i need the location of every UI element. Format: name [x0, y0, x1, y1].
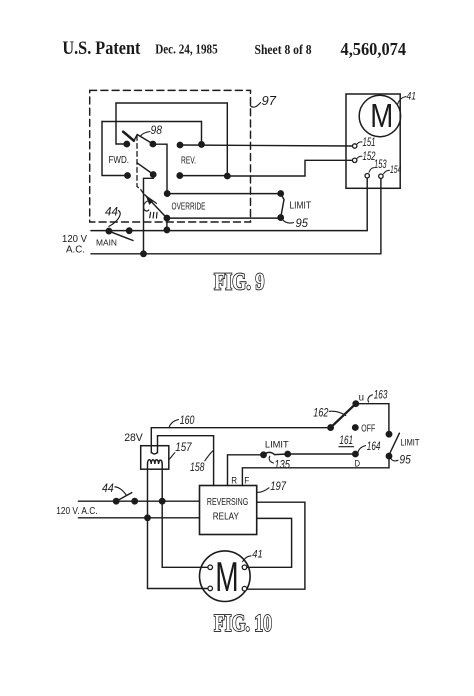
label 95 leader (fig9)	[283, 220, 294, 224]
svg-text:95: 95	[399, 453, 411, 467]
contact FWD top-left	[124, 141, 129, 146]
svg-text:158: 158	[190, 460, 205, 474]
svg-text:154: 154	[390, 164, 401, 176]
wire: AC bottom bus	[78, 517, 199, 519]
wire: second bus y=121.5	[102, 121, 202, 123]
svg-text:4,560,074: 4,560,074	[341, 39, 407, 59]
wire: AC top bus	[78, 500, 199, 502]
transformer secondary coil	[148, 460, 163, 464]
svg-text:F: F	[244, 476, 249, 486]
switch 44 blade (fig10)	[116, 493, 132, 502]
terminal 151	[353, 144, 357, 148]
svg-text:Dec. 24, 1985: Dec. 24, 1985	[155, 43, 218, 58]
label 160 leader	[169, 420, 178, 428]
svg-text:135: 135	[274, 458, 290, 472]
svg-text:FWD.: FWD.	[109, 155, 130, 166]
svg-text:MAIN: MAIN	[96, 238, 117, 248]
svg-text:120 V: 120 V	[62, 234, 87, 245]
label 153 leader	[369, 168, 374, 173]
terminal 154	[379, 174, 383, 178]
contact 44 right	[127, 228, 132, 233]
transformer primary leads	[151, 428, 157, 454]
contact LIMIT top	[278, 191, 283, 196]
contact REV top-right	[199, 142, 204, 147]
wire: secondary lead B to motor upper-left	[162, 464, 208, 567]
svg-text:160: 160	[180, 413, 195, 427]
svg-text:OVERRIDE: OVERRIDE	[172, 202, 206, 213]
svg-text:151: 151	[363, 137, 376, 149]
wire: OVERRIDE lower contact to LIMIT bottom	[167, 217, 281, 219]
label 95 leader (fig10)	[391, 458, 398, 461]
wire: OVERRIDE lower contact down to main bus	[166, 218, 168, 230]
OVERRIDE linkage hatch III	[150, 212, 157, 218]
wire: FWD bottom-right jog down to bottom bus	[144, 175, 154, 254]
svg-text:162: 162	[313, 406, 328, 420]
switch 98 lower blade	[137, 163, 153, 175]
junction main bus / override	[164, 227, 169, 232]
wire: FWD top-right to OVERRIDE top contact	[153, 144, 167, 193]
svg-text:FIG. 9: FIG. 9	[214, 269, 265, 296]
motor terminal lower-left	[208, 586, 213, 591]
svg-text:REVERSING: REVERSING	[207, 497, 248, 508]
svg-text:95: 95	[296, 216, 309, 230]
wire: 135 to selector D contact	[288, 453, 356, 455]
contact 95 top	[386, 432, 391, 437]
label 157 leader	[169, 453, 175, 460]
LIMIT 135 blade	[264, 452, 288, 454]
svg-text:FIG. 10: FIG. 10	[214, 610, 272, 637]
svg-text:M: M	[215, 553, 238, 600]
svg-text:Sheet 8 of 8: Sheet 8 of 8	[255, 43, 312, 58]
motor terminal lower-right	[242, 586, 247, 591]
wire: secondary lead A to motor lower-left	[148, 464, 209, 589]
motor box (fig9)	[346, 94, 400, 188]
svg-text:98: 98	[151, 125, 163, 137]
selector pivot contact	[328, 425, 333, 430]
svg-text:163: 163	[374, 388, 388, 402]
svg-text:44: 44	[105, 205, 118, 219]
wire: top bus y=103	[116, 102, 227, 104]
contact 135 left	[261, 452, 266, 457]
terminal 152	[353, 158, 357, 162]
label 151 leader	[357, 142, 362, 144]
wire: relay R terminal to LIMIT 135	[228, 455, 264, 486]
wire: 28V second bus to relay drop	[158, 436, 214, 486]
junction bottom bus	[141, 251, 146, 256]
wire: REV top row to motor terminal 151	[180, 145, 353, 146]
svg-text:D: D	[355, 459, 361, 469]
dashed enclosure 97	[90, 90, 251, 222]
svg-text:LIMIT: LIMIT	[265, 440, 289, 451]
wire: relay right #1 to motor lower-right	[247, 502, 305, 589]
switch 98 blade	[134, 135, 153, 144]
svg-text:197: 197	[270, 479, 287, 493]
limit switch 95 blade (fig10)	[389, 433, 399, 455]
contact REV bottom-right	[225, 173, 230, 178]
contact OVERRIDE bottom	[164, 215, 169, 220]
wire: bottom return bus	[91, 253, 381, 255]
mechanical linkage (dashed)	[137, 136, 145, 196]
contact u	[353, 401, 358, 406]
label 98 leader	[141, 132, 151, 137]
svg-text:LIMIT: LIMIT	[290, 199, 312, 211]
wire: 120V main bus	[91, 230, 367, 232]
svg-text:44: 44	[102, 481, 114, 495]
wire: relay right #2 to motor upper-right	[247, 518, 292, 567]
terminal 153	[365, 174, 369, 178]
svg-text:RELAY: RELAY	[213, 511, 239, 522]
contact 44 right (fig10)	[132, 499, 137, 504]
svg-text:161: 161	[339, 433, 353, 447]
junction secondary A / AC bottom	[145, 515, 150, 520]
relay box 197	[200, 486, 257, 535]
switch 98 blade tip	[123, 132, 134, 141]
label 44 leader (fig10)	[115, 487, 127, 496]
label 164 leader	[358, 446, 366, 453]
contact REV bottom-left	[177, 173, 182, 178]
junction secondary B / AC top	[160, 499, 165, 504]
OVERRIDE spring curl	[144, 201, 157, 211]
svg-text:153: 153	[374, 159, 387, 171]
wire: REV bottom row to motor terminal 152	[180, 160, 353, 176]
OVERRIDE blade arrowhead	[146, 196, 153, 204]
svg-text:164: 164	[367, 439, 381, 453]
label 41 leader (fig9)	[398, 97, 407, 105]
svg-text:28V: 28V	[124, 432, 143, 444]
contact LIMIT bottom	[278, 215, 283, 220]
label 197 leader	[258, 488, 270, 493]
wire: main bus up to motor terminal 153	[366, 178, 368, 231]
svg-text:A.C.: A.C.	[66, 245, 85, 256]
motor circle M (fig9)	[359, 95, 400, 136]
transformer box 157	[141, 446, 169, 470]
wire: 28V top bus to selector pivot	[151, 427, 330, 429]
wire: right drop to REV top-right contact	[201, 122, 203, 145]
label 154 leader	[384, 170, 390, 174]
motor terminal upper-left	[208, 565, 213, 570]
label 44 leader	[109, 211, 120, 227]
svg-text:M: M	[370, 97, 393, 134]
contact OFF	[353, 425, 358, 430]
wire: left drop to FWD top-left contact	[116, 103, 125, 144]
contact 44 left (fig10)	[114, 499, 119, 504]
svg-text:REV.: REV.	[181, 156, 196, 167]
wire: bottom bus up to motor terminal 154	[380, 178, 382, 254]
wire: left drop to FWD bottom-left contact	[102, 122, 126, 176]
label 158 leader	[205, 451, 213, 461]
label 163 leader	[368, 395, 373, 402]
svg-text:u: u	[359, 392, 364, 403]
svg-text:97: 97	[262, 93, 277, 108]
svg-text:41: 41	[407, 91, 417, 103]
LIMIT switch blade (fig9)	[281, 194, 284, 218]
label 97 leader	[250, 103, 260, 108]
contact 44 left	[106, 228, 111, 233]
contact 135 right	[285, 451, 290, 456]
contact REV top-left	[177, 142, 182, 147]
contact OVERRIDE top	[165, 191, 170, 196]
switch 44 blade	[109, 231, 133, 240]
label 41 leader (fig10)	[243, 556, 251, 562]
contact 95 bottom	[386, 453, 391, 458]
wire: relay F terminal to limit 95 bottom	[242, 456, 389, 485]
svg-text:OFF: OFF	[361, 423, 375, 434]
motor circle (fig10)	[200, 551, 251, 602]
svg-text:41: 41	[252, 549, 262, 561]
contact FWD bottom-left	[125, 173, 130, 178]
label 135 leader	[269, 456, 273, 463]
selector blade 162	[331, 404, 356, 428]
OVERRIDE switch blade	[145, 195, 167, 218]
svg-text:U.S. Patent: U.S. Patent	[62, 38, 141, 59]
contact FWD top-right	[150, 141, 155, 146]
svg-text:LIMIT: LIMIT	[400, 438, 419, 449]
svg-text:157: 157	[175, 440, 192, 454]
svg-text:R: R	[231, 476, 237, 486]
wire: right drop to REV bottom-right contact	[226, 103, 228, 176]
wire: OVERRIDE top contact to LIMIT top	[167, 193, 281, 195]
label 161 underline	[339, 446, 354, 448]
motor terminal upper-right	[242, 565, 247, 570]
svg-text:120 V. A.C.: 120 V. A.C.	[56, 506, 97, 517]
wire: u contact to limit 95 top	[356, 404, 389, 435]
contact D	[353, 451, 358, 456]
label 152 leader	[357, 156, 362, 158]
label 162 leader	[329, 411, 346, 415]
contact FWD bottom-right	[151, 172, 156, 177]
